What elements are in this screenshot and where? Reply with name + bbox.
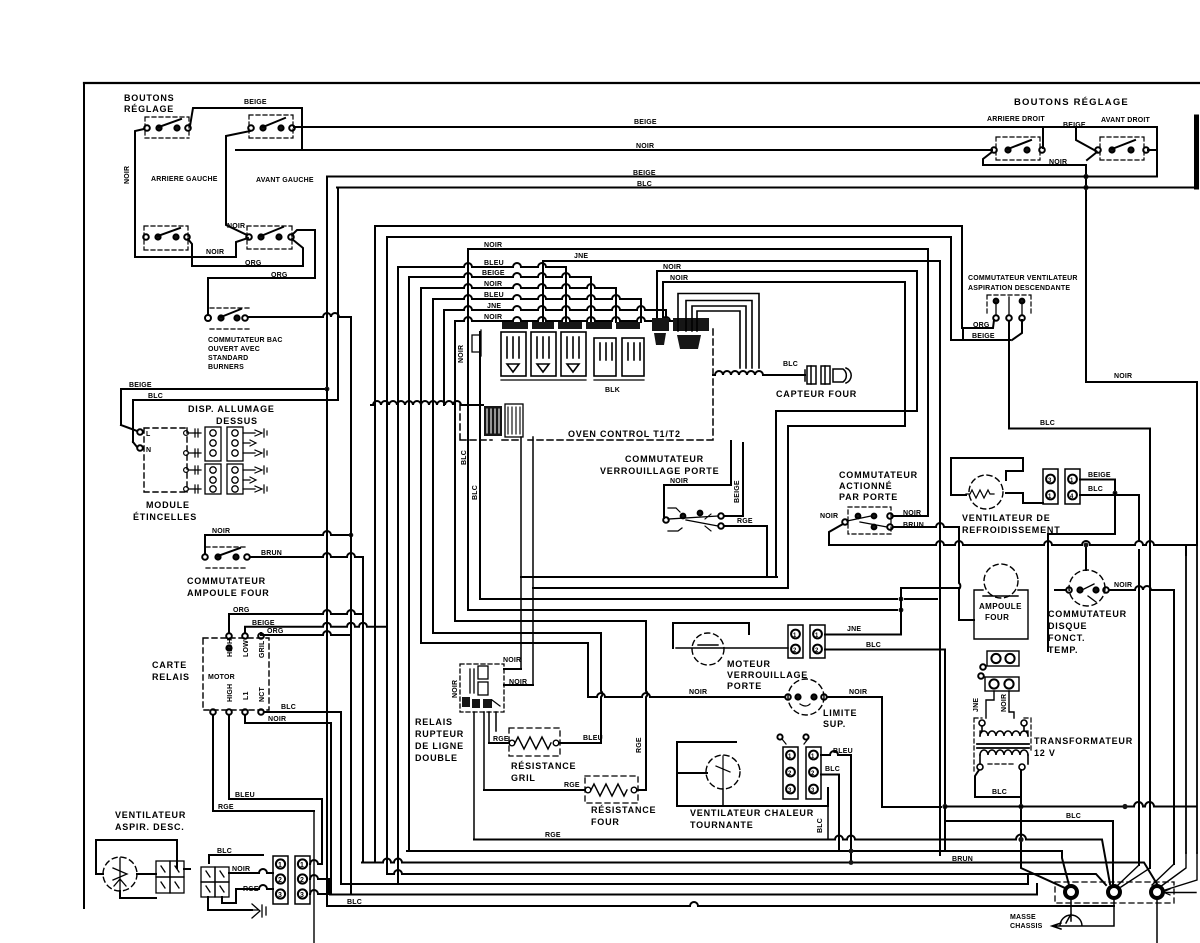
svg-text:BEIGE: BEIGE bbox=[1063, 122, 1086, 129]
wire blc from bus y187 down-left to module bbox=[133, 188, 338, 443]
verticals under oven control going down bbox=[521, 437, 533, 685]
wire vertical x1186 lower bbox=[1185, 545, 1187, 853]
label RESISTANCE GRIL bbox=[511, 761, 576, 783]
svg-text:NOIR: NOIR bbox=[452, 680, 459, 698]
svg-text:BEIGE: BEIGE bbox=[1088, 472, 1111, 479]
moteur verrouillage dashed circle bbox=[692, 633, 724, 665]
svg-text:COMMUTATEUR BAC: COMMUTATEUR BAC bbox=[208, 337, 283, 344]
wire noir limite right to drop bbox=[827, 697, 941, 807]
masse ring terminal 1 bbox=[1065, 886, 1077, 898]
svg-text:BLC: BLC bbox=[461, 450, 468, 465]
svg-text:RGE: RGE bbox=[636, 737, 643, 753]
svg-text:LIMITE: LIMITE bbox=[823, 708, 857, 718]
svg-text:BLEU: BLEU bbox=[484, 292, 504, 299]
switch verrouillage porte bbox=[663, 508, 724, 531]
wire disque right noir bbox=[1055, 586, 1174, 864]
svg-text:JNE: JNE bbox=[487, 303, 501, 310]
ventilateur de refroidissement enclosure bbox=[951, 458, 1043, 503]
wire beige continues to bottom bus bbox=[326, 389, 328, 906]
svg-text:1: 1 bbox=[278, 862, 282, 869]
svg-text:OUVERT AVEC: OUVERT AVEC bbox=[208, 346, 260, 353]
capteur four sensor symbol bbox=[805, 366, 851, 384]
wire noir S2-left drop to S4 bbox=[226, 131, 250, 235]
vent connector block 2x2 (second) bbox=[201, 867, 229, 897]
bus 577 from relais riser bbox=[521, 576, 777, 578]
relay cell 4 (pair) bbox=[594, 338, 616, 376]
relay cell 5 bbox=[622, 338, 644, 376]
transformateur core bbox=[977, 744, 1029, 748]
svg-text:MODULE: MODULE bbox=[146, 500, 190, 510]
ventilateur chaleur tournante enclosure bbox=[677, 742, 828, 806]
label LIMITE SUP. bbox=[823, 708, 857, 729]
masse fan wires into ring 3 bbox=[1152, 853, 1197, 893]
junction dot bus y599 bbox=[899, 597, 904, 602]
svg-text:VERROUILLAGE PORTE: VERROUILLAGE PORTE bbox=[600, 466, 719, 476]
wire noir connector to strip bbox=[229, 869, 273, 873]
switch avant gauche (top switch #2) bbox=[248, 115, 295, 138]
riser x322 from bleu bbox=[321, 799, 323, 864]
svg-text:RGE: RGE bbox=[218, 804, 234, 811]
terminal strip B (3 terminals) bbox=[295, 856, 310, 904]
label TRANSFORMATEUR 12 V bbox=[1034, 736, 1133, 758]
svg-text:TOURNANTE: TOURNANTE bbox=[690, 820, 754, 830]
svg-text:BLC: BLC bbox=[1040, 420, 1055, 427]
limite sup contacts bbox=[785, 694, 827, 706]
nest wire noir y321 bbox=[455, 317, 691, 621]
svg-text:NOIR: NOIR bbox=[670, 478, 688, 485]
svg-text:AMPOULE: AMPOULE bbox=[979, 602, 1022, 611]
svg-text:ORG: ORG bbox=[233, 607, 250, 614]
svg-text:MOTEUR: MOTEUR bbox=[727, 659, 771, 669]
wire bac switch output with hops bbox=[248, 313, 351, 317]
svg-text:RGE: RGE bbox=[545, 832, 561, 839]
svg-text:ARRIERE DROIT: ARRIERE DROIT bbox=[987, 116, 1045, 123]
wire org carte top1 bbox=[229, 610, 363, 633]
fonct temp terminal pair 1 bbox=[980, 651, 1019, 670]
svg-text:ORG: ORG bbox=[271, 272, 288, 279]
svg-text:BLC: BLC bbox=[1066, 813, 1081, 820]
bus 588 from relais riser bbox=[533, 587, 788, 589]
svg-text:2: 2 bbox=[278, 877, 282, 884]
refroidissement fan dashed circle bbox=[969, 475, 1003, 509]
oven control connector dark (right pair) bbox=[652, 318, 709, 349]
junction dot blc bbox=[1113, 491, 1118, 496]
bus noir y150 left-to-right bbox=[236, 149, 992, 151]
svg-text:HIGH: HIGH bbox=[227, 684, 234, 702]
svg-text:AVANT DROIT: AVANT DROIT bbox=[1101, 117, 1151, 124]
label BOUTONS REGLAGE (left) bbox=[124, 93, 174, 114]
nest wire L4 jne y261 bbox=[543, 261, 940, 855]
wire vertical x588 (to noir line) bbox=[587, 643, 589, 697]
module etincelles dashed box bbox=[144, 428, 187, 492]
label VENTILATEUR ASPIR. DESC. bbox=[115, 810, 186, 832]
junction dots vent drops bbox=[849, 849, 854, 854]
nest wire L3 noir y249 bbox=[468, 249, 928, 610]
fan connector block 2x2 bbox=[156, 861, 184, 893]
label VENTILATEUR DE REFROIDISSEMENT bbox=[962, 513, 1061, 535]
wire blc under transformer bbox=[975, 770, 1021, 797]
wire avant droit right to vertical bbox=[1148, 149, 1157, 151]
svg-text:ÉTINCELLES: ÉTINCELLES bbox=[133, 512, 197, 522]
svg-text:ORG: ORG bbox=[267, 628, 284, 635]
terminal strip A (3 terminals) bbox=[273, 856, 288, 904]
svg-text:NOIR: NOIR bbox=[503, 657, 521, 664]
bus y821 right bbox=[945, 821, 1113, 884]
wire avant droit left lower drop bbox=[1087, 152, 1097, 160]
switch commutateur bac bbox=[205, 308, 250, 329]
wire vertical x1086 with junctions down the page bbox=[1085, 165, 1087, 382]
svg-text:RÉSISTANCE: RÉSISTANCE bbox=[511, 761, 576, 771]
svg-text:JNE: JNE bbox=[574, 253, 588, 260]
wire beige refroidissement bbox=[1080, 480, 1115, 492]
junction dots x1021 bbox=[1018, 804, 1023, 809]
transformateur secondary coil bbox=[977, 750, 1028, 770]
junction dot x945 y806 bbox=[942, 804, 947, 809]
svg-text:NOIR: NOIR bbox=[670, 275, 688, 282]
wire rge down from carte t1 bbox=[213, 715, 314, 811]
junction dot bus y610 bbox=[899, 608, 904, 613]
label RESISTANCE FOUR bbox=[591, 805, 656, 827]
capteur feeds from connector bbox=[678, 294, 759, 369]
bottom bus y874 bbox=[387, 870, 1106, 885]
svg-text:BEIGE: BEIGE bbox=[244, 99, 267, 106]
wire org aspiration left bbox=[963, 320, 994, 340]
masse chassis dashed box bbox=[1055, 882, 1174, 903]
module terminal N bbox=[133, 442, 151, 454]
refroidissement terminal strip B bbox=[1065, 469, 1080, 504]
bottom bus blc y906 bbox=[327, 902, 1114, 906]
refroidissement element squiggle bbox=[966, 490, 994, 498]
resistance gril dashed box bbox=[509, 728, 560, 756]
svg-text:DE LIGNE: DE LIGNE bbox=[415, 741, 464, 751]
wire four to x646 bbox=[637, 789, 646, 791]
svg-text:NOIR: NOIR bbox=[232, 866, 250, 873]
switch avant gauche lower (S4) bbox=[246, 226, 294, 249]
svg-text:VERROUILLAGE: VERROUILLAGE bbox=[727, 670, 808, 680]
svg-text:JNE: JNE bbox=[847, 626, 861, 633]
svg-text:GRIL: GRIL bbox=[511, 773, 536, 783]
wire org S4-right loop down to bac switch bbox=[208, 230, 315, 315]
igniter pigtails left column bbox=[184, 429, 201, 493]
wire connector to ground bbox=[208, 897, 252, 910]
svg-text:NOIR: NOIR bbox=[636, 143, 654, 150]
svg-text:CHASSIS: CHASSIS bbox=[1010, 923, 1043, 930]
svg-text:FONCT.: FONCT. bbox=[1048, 633, 1085, 643]
wire blc loop down to bus 545 bbox=[1048, 493, 1115, 651]
bus y545 bbox=[829, 541, 1196, 545]
nest wire L2 y237 bbox=[387, 237, 951, 874]
resistance four element bbox=[585, 784, 637, 796]
wire beige vertical to switch bbox=[724, 443, 743, 516]
moteur crossbar bbox=[676, 645, 788, 648]
svg-text:OVEN CONTROL T1/T2: OVEN CONTROL T1/T2 bbox=[568, 429, 681, 439]
wire jne moteur bbox=[825, 610, 901, 635]
label RELAIS RUPTEUR DE LIGNE DOUBLE bbox=[415, 717, 464, 763]
svg-text:BLC: BLC bbox=[1088, 486, 1103, 493]
moteur terminal strip B bbox=[810, 625, 825, 658]
svg-text:3: 3 bbox=[300, 892, 304, 899]
bus y806.5 right bbox=[945, 802, 1196, 807]
bottom bus y894.5 bbox=[330, 884, 1037, 895]
svg-text:BLC: BLC bbox=[866, 642, 881, 649]
wire disque top feed bbox=[1085, 545, 1087, 570]
relay group underline bbox=[501, 379, 644, 381]
svg-text:AMPOULE FOUR: AMPOULE FOUR bbox=[187, 588, 270, 598]
limite sup dashed circle bbox=[788, 679, 824, 715]
resistance gril element bbox=[509, 737, 559, 749]
nest wire L1 y226 bbox=[375, 226, 962, 863]
carte relais bottom terminals bbox=[210, 709, 264, 715]
svg-text:BEIGE: BEIGE bbox=[129, 382, 152, 389]
label DISP. ALLUMAGE DESSUS bbox=[188, 404, 275, 426]
switch arriere droit bbox=[991, 137, 1045, 160]
nest wire bleu y267 bbox=[398, 263, 566, 884]
wire x1021 down to masse bbox=[1021, 797, 1065, 888]
svg-text:BLEU: BLEU bbox=[484, 260, 504, 267]
svg-text:DISP. ALLUMAGE: DISP. ALLUMAGE bbox=[188, 404, 275, 414]
sheet left border bbox=[83, 83, 85, 908]
wire vertical x646 (bleu drop to resistance four) bbox=[646, 621, 647, 790]
nest wire bleu y299 bbox=[433, 295, 641, 633]
wire fan block to strip bbox=[177, 861, 190, 869]
svg-text:1: 1 bbox=[300, 862, 304, 869]
svg-text:BRUN: BRUN bbox=[952, 856, 973, 863]
svg-text:NOIR: NOIR bbox=[849, 689, 867, 696]
svg-text:MOTOR: MOTOR bbox=[208, 674, 235, 681]
labels HIGH L1 NCT (rotated bottom) bbox=[227, 684, 266, 702]
masse ring terminal 2 bbox=[1108, 886, 1120, 898]
svg-text:RÉSISTANCE: RÉSISTANCE bbox=[591, 805, 656, 815]
svg-text:JNE: JNE bbox=[973, 698, 980, 712]
svg-text:BLEU: BLEU bbox=[583, 735, 603, 742]
fan wiring loop bbox=[96, 840, 177, 898]
resistance four dashed box bbox=[585, 776, 638, 803]
wire org carte top3 bbox=[261, 631, 351, 635]
svg-text:AVANT GAUCHE: AVANT GAUCHE bbox=[256, 177, 314, 184]
svg-text:GRIL: GRIL bbox=[259, 640, 266, 658]
wire rge to four bbox=[484, 789, 585, 791]
ampoule four box bbox=[974, 590, 1028, 639]
relay cell 1 bbox=[501, 332, 526, 376]
svg-text:DOUBLE: DOUBLE bbox=[415, 753, 458, 763]
wire vertical x901 from bus 588 bbox=[900, 588, 902, 634]
svg-text:FOUR: FOUR bbox=[985, 613, 1009, 622]
svg-text:BEIGE: BEIGE bbox=[252, 620, 275, 627]
svg-text:BLC: BLC bbox=[783, 361, 798, 368]
bus beige y127 to right switches bbox=[294, 127, 1157, 177]
svg-text:BLC: BLC bbox=[347, 899, 362, 906]
svg-text:COMMUTATEUR: COMMUTATEUR bbox=[839, 470, 918, 480]
svg-text:NOIR: NOIR bbox=[1001, 694, 1008, 712]
svg-text:NOIR: NOIR bbox=[484, 281, 502, 288]
svg-text:LOW: LOW bbox=[243, 640, 250, 657]
wires strips to risers bbox=[310, 860, 329, 894]
wire noir to verrouillage switch bbox=[664, 441, 731, 518]
vent chaleur terminal strip B bbox=[806, 747, 821, 799]
bottom bus y862.5 bbox=[362, 859, 1157, 885]
refroidissement terminal strip A bbox=[1043, 469, 1058, 504]
junction dot y806 bbox=[1122, 804, 1127, 809]
switch ventilateur aspiration bbox=[987, 295, 1031, 321]
svg-text:3: 3 bbox=[278, 892, 282, 899]
masse ring terminal 3 bbox=[1151, 886, 1163, 898]
switch avant droit bbox=[1095, 137, 1149, 160]
wire org S3-right to S4-right bbox=[188, 239, 303, 266]
svg-text:N: N bbox=[146, 447, 151, 454]
switch commutateur ampoule four bbox=[202, 535, 250, 568]
relais bottom verticals bbox=[474, 712, 496, 840]
svg-text:NOIR: NOIR bbox=[689, 689, 707, 696]
commutateur disque dashed circle bbox=[1069, 570, 1105, 606]
inner nest noir y282 (right) bbox=[663, 282, 905, 588]
wire bleu vent chaleur bbox=[821, 751, 851, 863]
wire rge connector lower bbox=[222, 885, 273, 903]
inner nest noir y271 (right) bbox=[657, 271, 917, 577]
wire beige carte top2 bbox=[245, 623, 386, 633]
sheet right border mark bbox=[1194, 117, 1199, 187]
label VENTILATEUR CHALEUR TOURNANTE bbox=[690, 808, 814, 830]
wire beige jumper over left switches bbox=[190, 108, 302, 148]
svg-text:SUP.: SUP. bbox=[823, 719, 846, 729]
svg-text:NOIR: NOIR bbox=[268, 716, 286, 723]
svg-text:BURNERS: BURNERS bbox=[208, 364, 244, 371]
wire bleu from gril bbox=[559, 742, 601, 744]
wire blc carte bottom bbox=[264, 712, 341, 884]
svg-text:BEIGE: BEIGE bbox=[734, 480, 741, 503]
labels HIGH LOW GRIL (rotated) bbox=[227, 639, 266, 658]
fonct temp terminal pair 2 bbox=[978, 673, 1019, 691]
wire rge from switch bbox=[724, 526, 767, 577]
nest wire beige y277 bbox=[409, 273, 591, 851]
svg-text:BLC: BLC bbox=[217, 848, 232, 855]
svg-text:RÉGLAGE: RÉGLAGE bbox=[124, 104, 174, 114]
svg-text:RELAIS: RELAIS bbox=[152, 672, 190, 682]
nest wire jne y310 bbox=[444, 306, 666, 405]
svg-text:RGE: RGE bbox=[243, 886, 259, 893]
svg-text:ORG: ORG bbox=[245, 260, 262, 267]
svg-text:2: 2 bbox=[300, 877, 304, 884]
svg-text:NOIR: NOIR bbox=[484, 314, 502, 321]
sheet top border bbox=[84, 82, 1200, 84]
svg-text:RELAIS: RELAIS bbox=[415, 717, 453, 727]
svg-text:ORG: ORG bbox=[973, 322, 990, 329]
bus blc y187.5 full width bbox=[337, 187, 1196, 189]
label MOTEUR VERROUILLAGE PORTE bbox=[727, 659, 808, 691]
fan motor arrows bbox=[113, 858, 127, 890]
svg-text:HIGH: HIGH bbox=[227, 639, 234, 657]
wire avant droit left terminal drop bbox=[1076, 127, 1096, 151]
svg-text:ASPIR. DESC.: ASPIR. DESC. bbox=[115, 822, 185, 832]
svg-text:RUPTEUR: RUPTEUR bbox=[415, 729, 464, 739]
oven control dashed box bbox=[460, 329, 713, 440]
svg-text:NOIR: NOIR bbox=[458, 345, 465, 363]
wire arriere droit right terminal to beige bus bbox=[1042, 127, 1044, 148]
svg-text:PAR PORTE: PAR PORTE bbox=[839, 492, 898, 502]
spark igniter connector grid bbox=[205, 427, 243, 494]
svg-text:DESSUS: DESSUS bbox=[216, 416, 258, 426]
junction dots on x1086 bbox=[1083, 174, 1088, 179]
label COMMUTATEUR VENTILATEUR ASPIRATION DESCENDANTE bbox=[968, 275, 1078, 292]
label COMMUTATEUR BAC OUVERT AVEC STANDARD BURNERS bbox=[208, 337, 283, 371]
svg-text:NOIR: NOIR bbox=[212, 528, 230, 535]
wire noir ampoule switch feed bbox=[206, 531, 351, 535]
relay cell 2 bbox=[531, 332, 556, 376]
svg-text:BEIGE: BEIGE bbox=[972, 333, 995, 340]
svg-text:NOIR: NOIR bbox=[484, 242, 502, 249]
svg-text:VENTILATEUR: VENTILATEUR bbox=[115, 810, 186, 820]
label MASSE CHASSIS bbox=[1010, 914, 1043, 930]
wire noir vertical left bbox=[135, 129, 144, 254]
carte relais top terminals bbox=[226, 633, 264, 650]
wire relais out2 bbox=[504, 684, 533, 686]
svg-text:CAPTEUR FOUR: CAPTEUR FOUR bbox=[776, 389, 857, 399]
svg-text:RGE: RGE bbox=[564, 782, 580, 789]
T1/T2 transformer connector bbox=[484, 404, 523, 437]
masse fan wires into ring 2 bbox=[1118, 865, 1150, 887]
svg-text:BLC: BLC bbox=[817, 818, 824, 833]
wire noir carte bottom bbox=[245, 715, 331, 895]
wire brun from ampoule switch bbox=[250, 553, 363, 863]
wire beige vertical from bus y176 down to module bbox=[121, 177, 327, 426]
svg-text:BEIGE: BEIGE bbox=[634, 119, 657, 126]
svg-text:BLC: BLC bbox=[148, 393, 163, 400]
bottom bus y851 bbox=[407, 851, 1069, 885]
switch arriere gauche (top-left burner switch) bbox=[144, 117, 191, 138]
svg-text:VENTILATEUR CHALEUR: VENTILATEUR CHALEUR bbox=[690, 808, 814, 818]
T1/T2 squiggle bundle feed bbox=[371, 401, 483, 405]
wire noir S3-left to S4-left bbox=[135, 238, 248, 257]
oven control relay labels row (dark blobs) bbox=[502, 322, 640, 329]
svg-text:DISQUE: DISQUE bbox=[1048, 621, 1087, 631]
svg-text:STANDARD: STANDARD bbox=[208, 355, 248, 362]
ground symbol chassis left bbox=[252, 904, 266, 918]
svg-text:BLC: BLC bbox=[992, 789, 1007, 796]
ventilateur chaleur motor dashed circle bbox=[706, 755, 740, 789]
svg-text:COMMUTATEUR VENTILATEUR: COMMUTATEUR VENTILATEUR bbox=[968, 275, 1078, 282]
svg-text:ARRIERE GAUCHE: ARRIERE GAUCHE bbox=[151, 176, 218, 183]
wire relais out1 bbox=[504, 668, 521, 670]
svg-text:COMMUTATEUR: COMMUTATEUR bbox=[1048, 609, 1127, 619]
label COMMUTATEUR AMPOULE FOUR bbox=[187, 576, 270, 598]
wire vertical x601 (to resistance gril bleu) bbox=[601, 633, 602, 742]
vent chaleur motor arrow bbox=[716, 756, 730, 788]
wire rge to gril bbox=[489, 742, 509, 744]
riser x329 bbox=[328, 879, 330, 894]
vent chaleur connector tabs bbox=[782, 739, 808, 744]
capteur four squiggle merge bbox=[713, 371, 805, 375]
bus beige y176.5 full width bbox=[327, 176, 1157, 178]
svg-text:MASSE: MASSE bbox=[1010, 914, 1036, 921]
carte relais dashed box bbox=[203, 638, 269, 710]
wire x480 to bus 599 bbox=[480, 332, 937, 599]
ampoule four dashed circle bbox=[984, 564, 1018, 598]
nest wire noir y288 bbox=[421, 284, 616, 643]
label COMMUTATEUR VERROUILLAGE PORTE bbox=[600, 454, 719, 476]
svg-text:BLC: BLC bbox=[281, 704, 296, 711]
svg-text:BLK: BLK bbox=[605, 387, 620, 394]
disque contacts bbox=[1066, 584, 1109, 602]
svg-text:BLEU: BLEU bbox=[235, 792, 255, 799]
module terminal L bbox=[121, 425, 151, 438]
transformateur 12V primary coil bbox=[979, 720, 1028, 736]
svg-text:BOUTONS RÉGLAGE: BOUTONS RÉGLAGE bbox=[1014, 97, 1129, 108]
svg-text:12 V: 12 V bbox=[1034, 748, 1056, 758]
svg-text:BRUN: BRUN bbox=[261, 550, 282, 557]
svg-text:CARTE: CARTE bbox=[152, 660, 187, 670]
wire blc vent chaleur bbox=[821, 775, 839, 852]
bottom bus rge y839.5 bbox=[474, 835, 1110, 884]
svg-text:NOIR: NOIR bbox=[206, 249, 224, 256]
